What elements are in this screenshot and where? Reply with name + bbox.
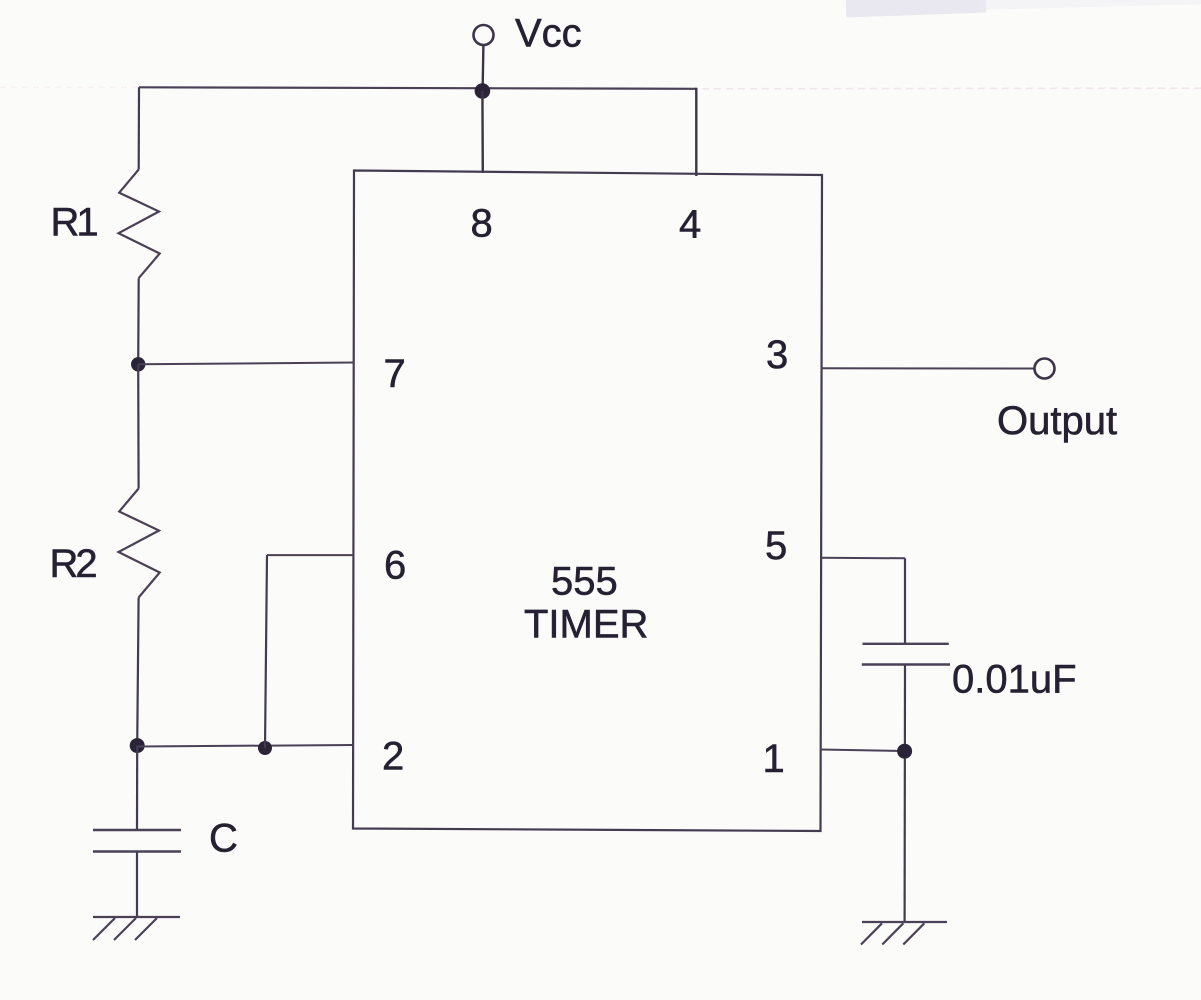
resistor R1 — [119, 170, 160, 279]
wire pin 1 — [821, 750, 905, 752]
svg-text:2: 2 — [382, 735, 404, 779]
svg-text:555: 555 — [551, 560, 618, 604]
svg-text:R2: R2 — [50, 542, 97, 586]
svg-text:5: 5 — [765, 524, 787, 568]
resistor R1 bottom lead — [137, 278, 140, 364]
svg-text:C: C — [209, 817, 238, 861]
capacitor C plates — [93, 829, 181, 831]
resistor R1 top lead — [138, 87, 141, 169]
wire top rail — [139, 87, 696, 89]
Output terminal circle — [1035, 359, 1055, 379]
wire Vcc stub — [481, 46, 484, 92]
svg-text:Vcc: Vcc — [515, 12, 582, 56]
ground left — [93, 917, 180, 940]
node pin7 junction — [131, 357, 145, 371]
svg-text:0.01uF: 0.01uF — [952, 658, 1077, 702]
svg-text:6: 6 — [384, 544, 406, 588]
capacitor C top lead — [136, 746, 138, 830]
resistor R2 — [119, 489, 160, 598]
resistor R2 bottom lead — [137, 598, 138, 746]
scan smudge top right — [846, 0, 987, 17]
svg-text:1: 1 — [763, 737, 785, 781]
svg-text:7: 7 — [384, 352, 406, 396]
wire pin 5 vertical to cap — [904, 558, 906, 644]
wire rail corner to pin 4 — [695, 88, 697, 176]
node C top junction — [130, 738, 145, 753]
scan streak along rail — [690, 87, 1201, 90]
junction Vcc rail — [475, 83, 491, 99]
wire pin 6 horizontal — [267, 554, 353, 556]
ground right — [861, 922, 947, 945]
svg-text:4: 4 — [679, 203, 701, 247]
wire pin 2 — [137, 745, 353, 747]
svg-text:TIMER: TIMER — [524, 603, 648, 647]
Vcc terminal circle — [474, 25, 494, 45]
svg-text:8: 8 — [471, 202, 493, 246]
wire pin 6 vertical — [265, 555, 267, 748]
IC U1 555 timer box — [353, 171, 822, 832]
svg-text:3: 3 — [766, 333, 788, 377]
wire pin 3 output — [821, 367, 1035, 369]
resistor R2 top lead — [137, 364, 140, 488]
wire pin 7 — [138, 363, 354, 365]
capacitor C2 bottom lead — [903, 665, 906, 923]
node pin1 cap junction — [897, 744, 912, 759]
wire pin 5 horizontal — [821, 557, 905, 560]
svg-text:Output: Output — [997, 399, 1117, 443]
capacitor C bottom lead — [136, 852, 138, 918]
wire junction to pin 8 — [481, 91, 484, 173]
svg-text:R1: R1 — [51, 201, 98, 245]
capacitor C2 0.01uF plates — [863, 643, 949, 645]
node pin6 branch junction — [258, 741, 272, 755]
